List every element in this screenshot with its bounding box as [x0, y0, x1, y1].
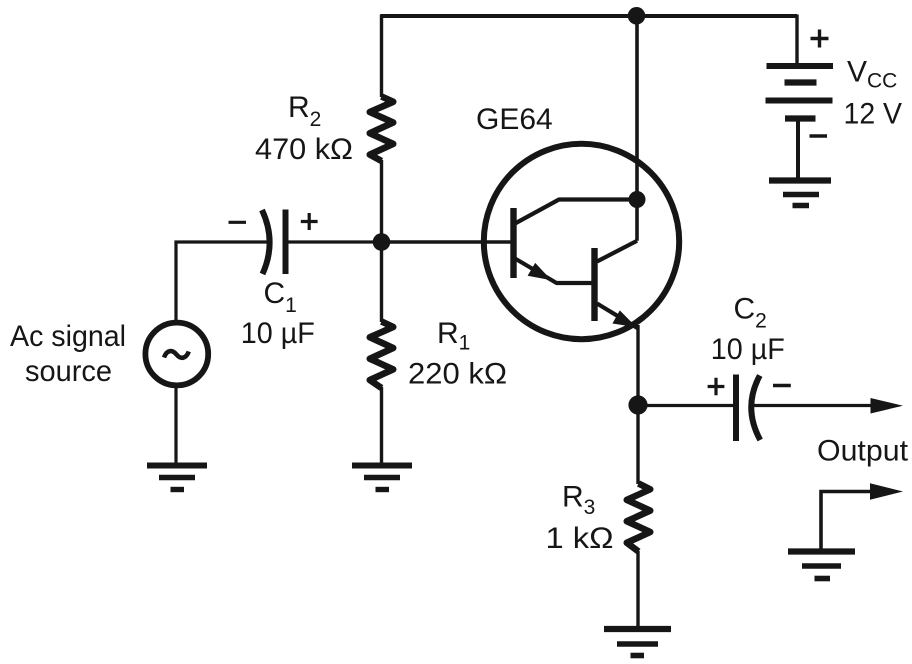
C1 minus sign [229, 221, 247, 224]
capacitor C1 curved plate [262, 210, 270, 274]
wire input horizontal to C1 [174, 240, 269, 243]
battery Vcc plate long top [767, 63, 834, 69]
transistor Q2 base bar [591, 248, 597, 321]
AC sine symbol [164, 351, 189, 358]
C2 minus sign [773, 384, 791, 387]
ground R1 [352, 463, 412, 469]
wire C1 to base node [286, 240, 383, 243]
wire emitter down to output node [636, 325, 639, 406]
wire base node to Q1 base [380, 240, 511, 243]
output return elbow wire [821, 492, 885, 550]
svg-text:Ac signal: Ac signal [10, 320, 126, 353]
C1 plus sign [301, 213, 318, 230]
resistor R1 [370, 322, 393, 389]
wire collector vertical from rail through node [635, 15, 639, 241]
C2 plus sign [708, 378, 725, 396]
svg-text:220 kΩ: 220 kΩ [408, 358, 507, 391]
battery Vcc plate short 2 [785, 115, 816, 121]
capacitor C2 straight plate [733, 375, 739, 442]
svg-text:R1: R1 [437, 317, 470, 355]
ground R3 [604, 626, 671, 632]
node base junction [373, 233, 391, 251]
svg-text:source: source [25, 355, 112, 388]
node emitter output junction [628, 395, 647, 414]
transistor GE64 envelope circle [484, 144, 679, 339]
svg-text:12 V: 12 V [844, 98, 903, 131]
transistor Q2 collector lead [597, 241, 637, 262]
capacitor C1 straight plate [283, 210, 289, 275]
svg-text:Output: Output [817, 435, 909, 468]
svg-text:R3: R3 [562, 481, 595, 520]
wire C2 to output arrowhead [751, 404, 886, 407]
battery Vcc plate short 1 [785, 79, 817, 85]
battery minus sign [810, 134, 828, 137]
Q1 emitter arrowhead [528, 263, 552, 280]
ground battery [769, 177, 831, 183]
ground AC source [147, 463, 207, 469]
wire top supply rail [381, 14, 798, 18]
svg-text:10 µF: 10 µF [711, 333, 785, 366]
resistor R2 [370, 97, 393, 162]
output arrowhead [871, 398, 904, 414]
wire output node to C2 [638, 404, 737, 407]
AC signal source circle [145, 323, 208, 386]
wire R3 top [636, 404, 639, 484]
wire base node to R1 [380, 241, 383, 322]
node junction top rail [628, 7, 646, 25]
wire R1 to ground [380, 387, 383, 463]
capacitor C2 curved plate [751, 376, 760, 441]
svg-text:10 µF: 10 µF [241, 317, 315, 350]
wire AC source to ground [174, 385, 177, 464]
output return arrowhead [870, 483, 903, 500]
wire input vertical to AC source [174, 242, 177, 322]
wire R2 top [380, 15, 383, 98]
svg-text:C1: C1 [264, 277, 297, 317]
ground output return [788, 548, 855, 554]
transistor Q2 emitter lead [597, 304, 638, 329]
wire R3 to ground [636, 551, 639, 627]
svg-text:R2: R2 [288, 91, 321, 131]
transistor Q1 emitter lead [515, 259, 592, 284]
svg-text:VCC: VCC [847, 56, 897, 93]
resistor R3 [627, 484, 650, 552]
svg-text:GE64: GE64 [476, 103, 553, 136]
transistor Q1 collector lead [515, 200, 632, 224]
Q2 emitter arrowhead [612, 310, 636, 327]
battery plus sign [811, 30, 829, 48]
svg-text:1 kΩ: 1 kΩ [546, 522, 614, 555]
wire Vcc branch down to battery [795, 15, 798, 65]
node collector junction [629, 191, 646, 208]
transistor Q1 base bar [510, 208, 516, 278]
svg-text:470 kΩ: 470 kΩ [255, 133, 353, 166]
wire R2 bottom to base node [380, 160, 383, 243]
wire battery negative to ground [796, 119, 800, 180]
svg-text:C2: C2 [734, 293, 767, 333]
battery Vcc plate long 2 [766, 98, 833, 104]
